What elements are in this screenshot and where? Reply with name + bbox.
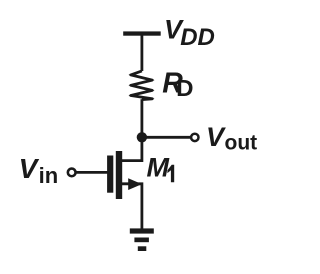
VDD supply bar: [123, 31, 161, 35]
node dot (drain node): [137, 132, 147, 142]
gate wire from input terminal: [76, 171, 108, 174]
wire resistor bottom to node: [140, 99, 143, 138]
svg-text:M: M: [147, 153, 170, 183]
wire VDD bar to resistor top: [140, 34, 143, 72]
wire node down to drain corner and into channel bar: [122, 136, 142, 161]
svg-text:out: out: [225, 132, 258, 155]
ground top bar: [130, 228, 154, 233]
source arrow: [128, 178, 142, 190]
source wire with corner down to ground: [122, 184, 142, 229]
svg-text:V: V: [19, 153, 40, 184]
svg-text:in: in: [39, 163, 59, 188]
transistor M1 gate bar: [107, 156, 113, 193]
wire node to output terminal: [142, 136, 191, 139]
svg-text:D: D: [176, 75, 193, 101]
ground bottom bar: [138, 246, 147, 251]
resistor RD zigzag: [129, 71, 155, 100]
svg-text:V: V: [206, 122, 226, 152]
output terminal circle: [191, 134, 198, 141]
svg-text:DD: DD: [180, 24, 215, 51]
transistor M1 channel bar: [116, 151, 122, 199]
input terminal circle: [68, 169, 76, 177]
ground middle bar: [134, 238, 149, 243]
